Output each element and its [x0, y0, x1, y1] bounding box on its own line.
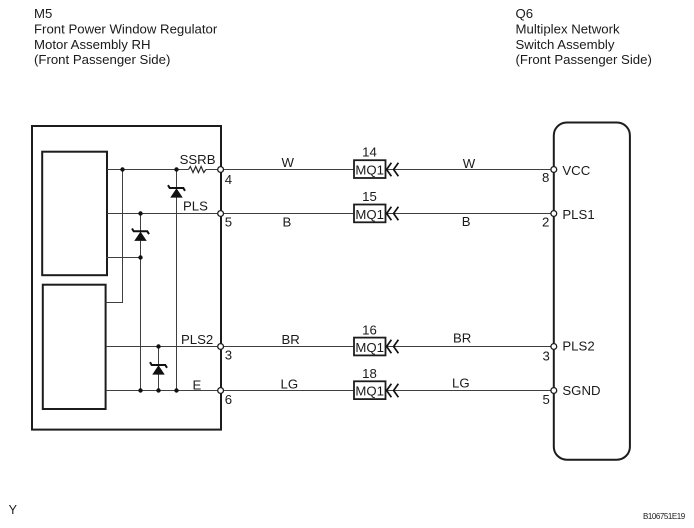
svg-text:5: 5: [543, 392, 550, 407]
wire W (pin 4 of M5 to pin 8 of Q6): [206, 169, 551, 171]
splice connector MQ1 pin 18: [354, 366, 398, 399]
junction SSRB / branch: [120, 167, 124, 171]
wire SSRB branch down to E wire: [176, 170, 178, 391]
junction PLS / branch: [138, 211, 142, 215]
svg-text:MQ1: MQ1: [355, 340, 384, 355]
junction PLS2 branch / E wire: [156, 388, 160, 392]
svg-text:BR: BR: [453, 330, 471, 345]
svg-text:B: B: [283, 215, 292, 230]
svg-text:5: 5: [225, 215, 232, 230]
pin 3 (Q6) PLS2: [543, 339, 595, 364]
svg-text:Y: Y: [9, 503, 18, 517]
svg-text:6: 6: [225, 392, 232, 407]
svg-text:VCC: VCC: [562, 163, 590, 178]
svg-text:MQ1: MQ1: [355, 163, 384, 178]
wire PLS / B (pin 5 of M5 to pin 2 of Q6): [107, 213, 551, 215]
motor block lower (M5 internal): [43, 285, 106, 409]
svg-text:B: B: [462, 214, 471, 229]
junction zener branch / E wire: [174, 388, 178, 392]
junction PLS branch / E wire: [138, 388, 142, 392]
zener diode (PLS branch): [132, 229, 149, 241]
svg-text:MQ1: MQ1: [355, 384, 384, 399]
svg-text:W: W: [282, 155, 295, 170]
pin 5 (M5): [218, 211, 232, 230]
svg-text:Q6: Q6: [516, 6, 534, 21]
svg-text:MQ1: MQ1: [355, 207, 384, 222]
svg-text:Switch Assembly: Switch Assembly: [516, 37, 615, 52]
wire PLS2 / BR (pin 3 of M5 to pin 3 of Q6): [106, 346, 551, 348]
pin 3 (M5): [218, 344, 232, 363]
svg-text:PLS: PLS: [183, 198, 208, 213]
wire PLS2 branch down to E wire: [158, 347, 160, 391]
svg-text:8: 8: [542, 170, 549, 185]
wire SSRB branch to lower motor block: [106, 170, 123, 303]
svg-text:Front Power Window Regulator: Front Power Window Regulator: [34, 22, 218, 37]
svg-text:SGND: SGND: [562, 383, 600, 398]
svg-text:3: 3: [225, 348, 232, 363]
svg-text:16: 16: [362, 323, 377, 338]
svg-text:18: 18: [362, 366, 377, 381]
svg-text:PLS2: PLS2: [562, 339, 594, 354]
svg-text:(Front Passenger Side): (Front Passenger Side): [34, 52, 170, 67]
motor block upper (M5 internal): [42, 152, 107, 276]
junction PLS2 / branch: [156, 344, 160, 348]
svg-text:Multiplex Network: Multiplex Network: [516, 22, 620, 37]
connector M5 header label: [34, 6, 218, 67]
pin 4 (M5): [218, 167, 232, 187]
zener diode (SSRB branch): [168, 185, 185, 197]
splice connector MQ1 pin 16: [354, 323, 398, 356]
svg-text:15: 15: [362, 189, 377, 204]
svg-text:3: 3: [543, 349, 550, 364]
resistor (SSRB): [189, 167, 206, 173]
wire PLS branch down to E wire: [140, 214, 142, 391]
svg-text:Motor Assembly RH: Motor Assembly RH: [34, 37, 151, 52]
svg-text:PLS2: PLS2: [181, 332, 213, 347]
pin 6 (M5): [218, 388, 232, 407]
pin 8 (Q6) VCC: [542, 163, 591, 185]
pin 2 (Q6) PLS1: [542, 207, 595, 229]
junction SSRB / zener branch: [174, 167, 178, 171]
svg-text:B106751E19: B106751E19: [643, 512, 686, 521]
connector Q6 header label: [516, 6, 652, 67]
pin 5 (Q6) SGND: [543, 383, 601, 407]
svg-text:(Front Passenger Side): (Front Passenger Side): [516, 52, 652, 67]
wire E / LG (pin 6 of M5 to pin 5 of Q6): [106, 390, 551, 392]
svg-text:14: 14: [362, 145, 377, 160]
svg-text:4: 4: [225, 172, 232, 187]
svg-text:M5: M5: [34, 6, 52, 21]
junction tap / PLS branch: [138, 255, 142, 259]
svg-text:PLS1: PLS1: [562, 207, 594, 222]
splice connector MQ1 pin 14: [354, 145, 398, 179]
wire SSRB (motor block to resistor): [107, 169, 189, 171]
svg-text:W: W: [463, 156, 476, 171]
svg-text:2: 2: [542, 214, 549, 229]
wire tap to upper motor block (lower terminal): [106, 257, 141, 259]
connector M5 outline: [32, 126, 221, 430]
splice connector MQ1 pin 15: [354, 189, 398, 222]
svg-text:LG: LG: [281, 377, 299, 392]
connector Q6 outline: [554, 123, 630, 460]
svg-text:LG: LG: [452, 376, 470, 391]
svg-text:BR: BR: [282, 332, 300, 347]
svg-text:SSRB: SSRB: [180, 152, 216, 167]
zener diode (PLS2 branch): [150, 362, 167, 374]
svg-text:E: E: [193, 378, 202, 393]
